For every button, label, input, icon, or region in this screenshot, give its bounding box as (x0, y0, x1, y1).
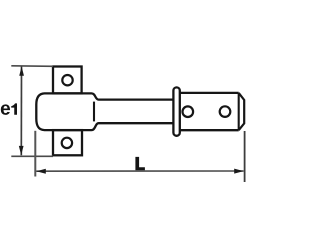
e1 top extension line (11, 65, 53, 68)
cylinder right hole (220, 106, 231, 117)
top tab hole (62, 75, 72, 85)
cylinder chamfered end cap (239, 93, 245, 130)
cylinder end face line (238, 93, 240, 130)
collar flange (173, 87, 179, 135)
e1 label letter e (1, 104, 10, 114)
L right arrowhead (234, 169, 244, 174)
e1 dimension line (20, 67, 22, 156)
bottom tab hole (62, 138, 72, 148)
e1 up arrowhead (19, 66, 24, 75)
cylindrical end body top edge (180, 92, 239, 94)
bottom mounting tab (53, 130, 82, 155)
L label (135, 157, 145, 170)
cylindrical end body bottom edge (180, 129, 239, 131)
L dimension line (36, 170, 243, 172)
head-to-neck boundary line (93, 102, 95, 122)
tool body outline (head, nose, tapered neck, shank) (36, 93, 173, 130)
cylinder left hole (183, 106, 194, 117)
L right extension line (244, 131, 246, 182)
e1 down arrowhead (19, 146, 24, 155)
e1 label digit 1 (11, 103, 17, 114)
top mounting tab (53, 67, 82, 94)
e1 bottom extension line (11, 155, 53, 157)
L left arrowhead (36, 169, 46, 174)
L left extension line (34, 131, 36, 177)
